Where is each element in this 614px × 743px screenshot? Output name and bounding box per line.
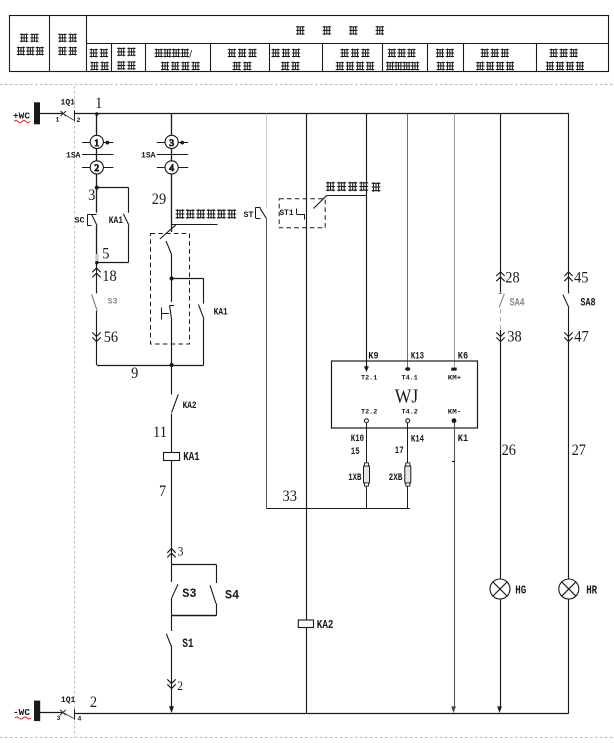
svg-text:/: / [189, 50, 192, 61]
lamp HR [559, 579, 597, 599]
svg-text:3: 3 [57, 715, 61, 722]
label 27 [572, 442, 586, 459]
wire column1 drop [96, 114, 98, 136]
wire [171, 149, 173, 161]
dotted rule below header [0, 84, 614, 86]
svg-text:29: 29 [152, 191, 166, 208]
svg-text:1: 1 [56, 117, 60, 124]
wire below HR [568, 599, 570, 713]
contact ST1 [280, 209, 305, 220]
svg-text:S3: S3 [108, 297, 118, 307]
relay WJ box [332, 361, 478, 428]
svg-text:3: 3 [88, 187, 95, 204]
legend text 控制小母线 [17, 33, 44, 55]
svg-text:HR: HR [586, 585, 597, 598]
svg-text:ST: ST [244, 210, 254, 220]
wire [96, 149, 98, 161]
svg-text:T2.2: T2.2 [361, 409, 377, 416]
wire column3 drop gray [266, 114, 268, 208]
marker 56 down arrow [92, 329, 118, 365]
svg-text:28: 28 [505, 270, 519, 287]
svg-text:15: 15 [351, 447, 360, 458]
terminal T2.1 [361, 366, 377, 381]
svg-text:KA1: KA1 [183, 451, 199, 464]
svg-text:K14: K14 [411, 435, 424, 446]
switch SA8 [563, 295, 596, 330]
wire column4 drop [306, 114, 308, 620]
svg-text:4: 4 [78, 716, 82, 723]
marker 38 down arrow [496, 329, 521, 580]
legend table frame [10, 16, 609, 72]
svg-text:KA1: KA1 [214, 307, 228, 319]
wire 7 [159, 461, 172, 549]
svg-text:1: 1 [95, 95, 102, 112]
legend title 控制回路 [296, 26, 384, 35]
marker 3 up arrow [167, 544, 183, 565]
node 3 [88, 186, 99, 204]
svg-text:1SA: 1SA [141, 151, 156, 161]
svg-text:1Q1: 1Q1 [61, 99, 76, 108]
wire K13 [408, 114, 425, 368]
terminal T4.1 [402, 367, 418, 381]
svg-text:2: 2 [94, 164, 99, 174]
wire K10 [351, 423, 367, 463]
terminal circle 4 [157, 161, 188, 174]
wire branch to KA1 contact [97, 188, 129, 213]
wire top bus [74, 113, 569, 115]
wire K9 [367, 114, 379, 367]
fuse 2XB [389, 463, 411, 509]
svg-text:K1: K1 [458, 434, 468, 445]
contact inside box upper [166, 241, 172, 279]
svg-text:56: 56 [104, 329, 118, 346]
svg-text:SC: SC [75, 216, 85, 226]
wire K14 [395, 423, 424, 463]
dashed box 螺杆机控制器 [151, 234, 190, 345]
switch 1SA right bar [141, 151, 188, 161]
svg-text:18: 18 [102, 268, 116, 285]
dotted rule bottom [0, 737, 614, 739]
wire column HG drop [500, 114, 502, 272]
svg-text:T4.1: T4.1 [402, 374, 418, 381]
lamp HG [490, 579, 526, 599]
wire 29 [152, 174, 172, 232]
svg-text:SA8: SA8 [580, 298, 595, 310]
legend text 空气开关 [58, 33, 76, 55]
terminal KM+ [448, 368, 462, 382]
svg-text:9: 9 [131, 365, 138, 382]
switch S3 upper [92, 294, 118, 331]
wire K1 [451, 423, 468, 713]
annotation line 螺杆机控制器 [172, 224, 218, 226]
svg-text:T4.2: T4.2 [402, 409, 418, 416]
svg-text:17: 17 [395, 446, 404, 457]
busbar -WC [13, 701, 40, 722]
contact KA2 [153, 365, 197, 453]
svg-text:3: 3 [169, 139, 174, 149]
parallel block S3 S4 top bar [172, 564, 217, 583]
annotation 引至控制室 [314, 182, 381, 209]
terminal T4.2 [402, 409, 418, 423]
marker 2 down arrow [167, 678, 183, 708]
fuse 1XB [348, 463, 369, 509]
breaker 1Q1 top [40, 99, 81, 124]
svg-text:SA4: SA4 [510, 298, 525, 310]
svg-text:7: 7 [159, 483, 166, 500]
terminal circle 2 [82, 161, 113, 174]
pushbutton NC inside box [162, 279, 175, 366]
terminal KM- [448, 409, 462, 423]
terminal circle 3 [157, 135, 188, 149]
svg-text:S3: S3 [182, 587, 196, 601]
svg-text:1SA: 1SA [66, 151, 81, 161]
parallel block bottom bar [172, 615, 216, 617]
svg-text:ST1: ST1 [280, 209, 294, 218]
svg-text:KM-: KM- [448, 409, 462, 416]
svg-text:KA1: KA1 [109, 215, 123, 227]
wire below contact ST [266, 219, 268, 509]
pushbutton SC [75, 188, 98, 254]
switch S1 [166, 616, 193, 678]
label 螺杆机控制器 ST [176, 209, 254, 220]
svg-text:1XB: 1XB [348, 473, 361, 484]
svg-text:-WC: -WC [13, 707, 30, 718]
contact KA1 branch right [198, 279, 227, 366]
svg-text:S4: S4 [225, 588, 240, 602]
node 1 [95, 95, 102, 116]
svg-text:4: 4 [169, 164, 174, 174]
svg-text:45: 45 [574, 270, 588, 287]
svg-text:33: 33 [283, 488, 297, 505]
svg-text:2: 2 [77, 117, 81, 124]
svg-text:1: 1 [94, 139, 99, 149]
wire K6 [455, 114, 469, 368]
svg-text:38: 38 [507, 329, 521, 346]
wire node 9 horizontal [97, 365, 204, 382]
legend sub headers [90, 47, 584, 70]
busbar +WC [13, 102, 40, 124]
wire column2 drop [171, 114, 173, 136]
wire arrow into bottom bus [169, 706, 174, 713]
terminal T2.2 [361, 409, 377, 423]
wire column HR drop [568, 114, 570, 272]
svg-text:3: 3 [178, 544, 184, 559]
svg-text:2XB: 2XB [389, 473, 403, 484]
svg-text:11: 11 [153, 424, 167, 441]
label 26 [502, 442, 516, 459]
node inside box [170, 276, 204, 280]
svg-text:27: 27 [572, 442, 586, 459]
svg-text:S1: S1 [182, 637, 193, 651]
wire [96, 174, 98, 188]
dashed box ST1 [279, 199, 325, 228]
svg-text:KM+: KM+ [448, 374, 462, 381]
svg-text:5: 5 [102, 246, 109, 263]
switch S3 lower [172, 564, 197, 616]
svg-text:1Q1: 1Q1 [61, 696, 76, 705]
terminal circle 1 [82, 135, 113, 149]
contact ST [256, 207, 267, 218]
dashed column separator [74, 86, 76, 737]
contact KA1 parallel [97, 214, 129, 263]
svg-text:KA2: KA2 [183, 400, 197, 412]
wire bottom bus [74, 713, 569, 715]
switch SA4 [499, 294, 525, 331]
svg-text:WJ: WJ [395, 386, 419, 408]
coil KA2 [298, 619, 333, 632]
wire 33 horizontal [266, 488, 409, 509]
svg-text:T2.1: T2.1 [361, 374, 377, 381]
svg-text:KA2: KA2 [317, 619, 334, 632]
node 9 dot [170, 363, 174, 367]
marker 45 up arrow [564, 270, 588, 294]
svg-text:+WC: +WC [13, 111, 30, 122]
marker 28 up arrow [496, 270, 519, 293]
node 5 [95, 246, 109, 265]
wire below KA2 coil [306, 628, 308, 714]
svg-text:HG: HG [515, 585, 526, 598]
switch S4 [210, 585, 240, 616]
svg-text:K10: K10 [351, 434, 364, 445]
switch 1SA left bar [66, 151, 113, 161]
breaker 1Q1 bottom [40, 694, 97, 722]
svg-text:2: 2 [177, 678, 183, 693]
svg-text:26: 26 [502, 442, 516, 459]
svg-text:47: 47 [574, 329, 588, 346]
svg-text:2: 2 [90, 694, 97, 711]
marker 18 up arrow [92, 263, 116, 294]
marker 47 down arrow [564, 329, 588, 580]
isolator slash [160, 224, 177, 239]
coil KA1 [164, 451, 200, 464]
wire below HG [497, 599, 502, 713]
